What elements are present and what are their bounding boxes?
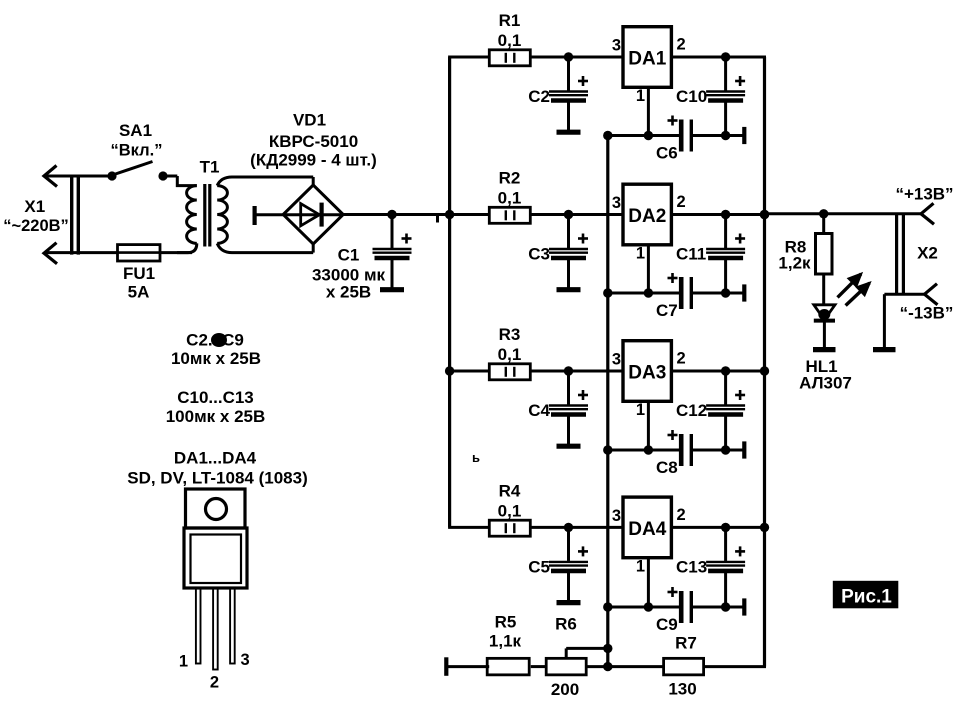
svg-text:DA1...DA4: DA1...DA4 xyxy=(174,449,257,468)
svg-text:АЛ307: АЛ307 xyxy=(799,374,852,393)
svg-text:“~220В”: “~220В” xyxy=(3,217,69,235)
svg-text:C10...C13: C10...C13 xyxy=(177,388,254,407)
svg-text:R2: R2 xyxy=(499,169,521,188)
svg-text:SA1: SA1 xyxy=(119,121,152,140)
svg-text:х 25В: х 25В xyxy=(326,283,371,302)
svg-text:FU1: FU1 xyxy=(123,264,155,283)
svg-text:0,1: 0,1 xyxy=(498,189,522,208)
svg-text:C7: C7 xyxy=(656,301,678,320)
svg-text:C6: C6 xyxy=(656,144,678,163)
svg-text:КВРС-5010: КВРС-5010 xyxy=(269,132,358,151)
svg-text:R1: R1 xyxy=(499,11,521,30)
svg-text:3: 3 xyxy=(241,651,250,669)
svg-text:2: 2 xyxy=(677,506,686,524)
svg-text:1,2к: 1,2к xyxy=(778,254,811,273)
svg-text:3: 3 xyxy=(612,507,621,525)
svg-text:2: 2 xyxy=(677,36,686,54)
svg-text:X1: X1 xyxy=(24,197,45,216)
svg-text:C10: C10 xyxy=(676,87,707,106)
svg-text:ь: ь xyxy=(472,450,480,465)
svg-text:DA2: DA2 xyxy=(628,206,666,227)
svg-text:DA4: DA4 xyxy=(628,519,666,540)
svg-text:1: 1 xyxy=(179,653,188,671)
svg-text:R4: R4 xyxy=(499,481,521,500)
svg-text:Х2: Х2 xyxy=(917,244,938,263)
svg-text:DA3: DA3 xyxy=(628,363,666,384)
svg-text:100мк х 25В: 100мк х 25В xyxy=(166,407,266,426)
svg-text:1: 1 xyxy=(636,87,645,105)
svg-text:Рис.1: Рис.1 xyxy=(841,587,892,608)
svg-text:R7: R7 xyxy=(675,634,697,653)
svg-text:3: 3 xyxy=(612,194,621,212)
svg-text:C9: C9 xyxy=(656,615,678,634)
svg-text:2: 2 xyxy=(677,350,686,368)
svg-text:C13: C13 xyxy=(676,557,707,576)
svg-text:0,1: 0,1 xyxy=(498,501,522,520)
svg-text:3: 3 xyxy=(612,351,621,369)
svg-text:VD1: VD1 xyxy=(293,111,326,130)
svg-text:200: 200 xyxy=(551,680,579,699)
svg-text:C12: C12 xyxy=(676,401,707,420)
svg-text:R3: R3 xyxy=(499,325,521,344)
svg-text:1,1к: 1,1к xyxy=(489,632,522,651)
svg-text:1: 1 xyxy=(636,557,645,575)
svg-text:10мк х 25В: 10мк х 25В xyxy=(171,349,261,368)
svg-text:T1: T1 xyxy=(200,158,220,177)
svg-text:“+13В”: “+13В” xyxy=(895,185,953,204)
svg-text:“-13В”: “-13В” xyxy=(900,304,954,323)
svg-text:C8: C8 xyxy=(656,458,678,477)
svg-text:C2: C2 xyxy=(528,87,550,106)
svg-text:0,1: 0,1 xyxy=(498,31,522,50)
svg-text:5А: 5А xyxy=(128,283,150,302)
svg-text:0,1: 0,1 xyxy=(498,345,522,364)
svg-text:“Вкл.”: “Вкл.” xyxy=(111,142,163,160)
svg-text:C1: C1 xyxy=(338,246,360,265)
svg-text:R5: R5 xyxy=(495,613,517,632)
svg-text:130: 130 xyxy=(668,680,696,699)
svg-text:SD, DV, LT-1084 (1083): SD, DV, LT-1084 (1083) xyxy=(127,469,307,488)
svg-text:1: 1 xyxy=(636,401,645,419)
svg-text:3: 3 xyxy=(612,37,621,55)
svg-text:2: 2 xyxy=(210,674,219,692)
svg-text:C11: C11 xyxy=(676,245,706,264)
svg-text:2: 2 xyxy=(677,193,686,211)
svg-text:R6: R6 xyxy=(555,615,577,634)
svg-text:DA1: DA1 xyxy=(628,49,666,70)
svg-text:(КД2999 - 4 шт.): (КД2999 - 4 шт.) xyxy=(250,151,377,170)
svg-text:1: 1 xyxy=(636,245,645,263)
svg-text:C4: C4 xyxy=(528,401,550,420)
svg-text:C3: C3 xyxy=(528,245,550,264)
svg-text:C5: C5 xyxy=(528,557,550,576)
